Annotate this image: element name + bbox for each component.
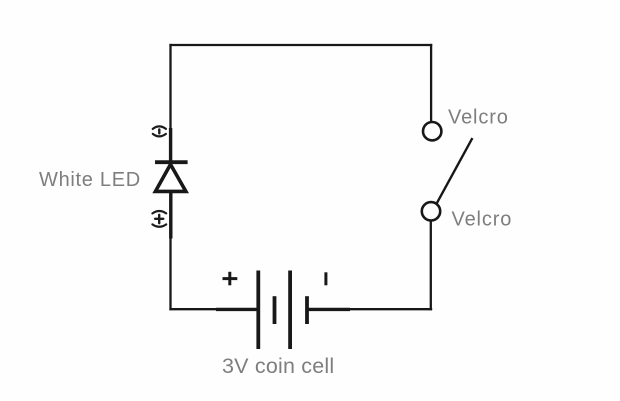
wire left vertical (lower segment, LED anode to bottom corner) xyxy=(169,191,171,310)
switch S1 blade (open) xyxy=(437,138,473,204)
LED top lead (thicker) xyxy=(169,128,172,162)
battery left lead (thick) xyxy=(216,308,258,311)
wire top horizontal xyxy=(169,44,432,46)
wire right vertical (upper segment, top corner to switch top contact) xyxy=(430,44,432,121)
wire left vertical (upper segment, top corner to LED cathode bar) xyxy=(169,44,171,163)
LED D1 triangle (anode, pointing up) xyxy=(155,164,186,191)
svg-text:3V coin cell: 3V coin cell xyxy=(222,354,334,378)
battery BT1 negative short plate (inner left) xyxy=(273,296,277,324)
LED D1 cathode bar xyxy=(155,160,188,164)
svg-text:White LED: White LED xyxy=(39,169,141,191)
wire right vertical (lower segment, switch bottom contact to bottom corner) xyxy=(430,221,432,310)
svg-text:Velcro: Velcro xyxy=(452,209,513,231)
switch S1 bottom contact circle xyxy=(422,202,440,220)
battery BT1 negative short plate (right) xyxy=(305,296,309,324)
wire bottom horizontal (right part, battery - lead to bottom right corner) xyxy=(348,308,432,310)
LED anode polarity label (+) rotated xyxy=(152,211,166,227)
LED cathode polarity label (-) rotated xyxy=(153,126,166,136)
battery - terminal label (rotated minus, vertical dash) xyxy=(324,272,327,285)
svg-text:Velcro: Velcro xyxy=(448,107,509,129)
battery BT1 positive long plate (left) xyxy=(256,271,260,350)
LED bottom lead (thicker) xyxy=(169,191,172,239)
battery + terminal label xyxy=(223,272,238,286)
battery right lead (thick) xyxy=(307,308,350,311)
wire bottom horizontal (left part, to battery + lead) xyxy=(169,308,230,310)
battery BT1 positive long plate (inner right) xyxy=(288,271,292,350)
switch S1 top contact circle xyxy=(423,122,441,140)
